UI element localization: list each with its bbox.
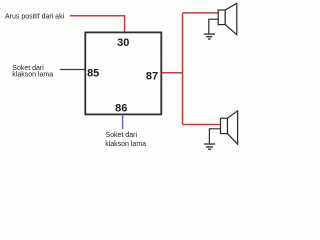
wire: blue to pin 85 [60, 69, 86, 71]
wire: red from battery label to relay pin 30 [70, 16, 125, 33]
svg-text:86: 86 [115, 102, 127, 114]
wire: top horn to ground [209, 19, 218, 33]
relay K1 body [85, 32, 161, 114]
svg-text:klakson lama: klakson lama [12, 71, 53, 78]
pin 87 label [146, 71, 158, 83]
wire: red to bottom horn [183, 124, 221, 126]
ground (bottom horn) [204, 144, 215, 149]
ground (top horn) [204, 34, 215, 39]
horn speaker LS1 (top) [218, 3, 237, 34]
wire: red from pin 87 to junction [162, 72, 183, 74]
svg-text:Arus positif dari aki: Arus positif dari aki [5, 13, 65, 20]
wire: red vertical trunk [182, 13, 184, 125]
wire: blue from pin 86 [122, 115, 124, 130]
pin 30 label [117, 37, 129, 49]
horn speaker LS2 (bottom) [221, 111, 238, 144]
svg-text:Soket dari: Soket dari [106, 132, 138, 139]
wire: red to top horn [183, 12, 219, 14]
label: Soket dari klakson lama (left) [12, 65, 53, 79]
wire: bottom horn to ground [209, 129, 220, 144]
label: Arus positif dari aki [5, 13, 65, 20]
label: Soket dari klakson lama (bottom) [105, 132, 146, 148]
svg-text:30: 30 [117, 37, 129, 49]
pin 86 label [115, 102, 127, 114]
svg-text:87: 87 [146, 71, 158, 83]
pin 85 label [87, 67, 99, 79]
svg-text:klakson lama: klakson lama [105, 141, 146, 148]
svg-text:85: 85 [87, 67, 99, 79]
